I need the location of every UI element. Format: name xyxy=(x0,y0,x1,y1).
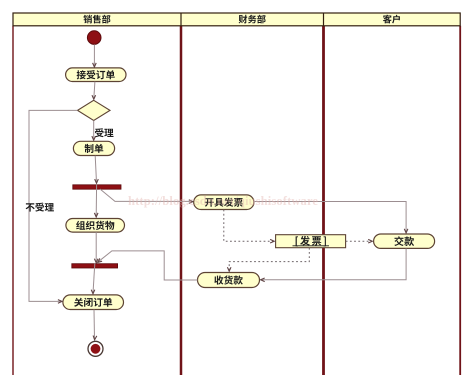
decision diamond xyxy=(78,100,111,120)
wire decision -> close order (reject branch) xyxy=(29,110,78,301)
wire pay -> receive payment xyxy=(261,249,406,280)
wire fork -> issue invoice xyxy=(100,189,192,201)
wire join -> close order xyxy=(93,264,95,294)
dashed wire invoice object -> pay xyxy=(346,240,372,242)
label: accepted xyxy=(95,128,114,137)
label: not accepted xyxy=(26,203,54,212)
lane divider 1 (sales|finance) xyxy=(180,26,183,375)
wire initial -> accept order xyxy=(93,44,95,66)
header label: sales dept xyxy=(83,15,110,24)
activity: accept order xyxy=(66,68,126,82)
initial node xyxy=(87,31,101,45)
wire decision -> make order xyxy=(93,121,95,140)
wire close order -> final xyxy=(93,310,96,340)
wire accept order -> decision xyxy=(94,82,95,99)
activity: organize goods xyxy=(66,219,125,233)
fork bar xyxy=(73,185,121,189)
dashed wire issue invoice -> invoice object xyxy=(224,210,274,242)
activity: make order xyxy=(73,141,114,155)
lane border right (customer lane) xyxy=(459,26,461,375)
dashed wire invoice object -> receive payment xyxy=(229,248,309,271)
join bar xyxy=(72,264,118,268)
wire receive payment -> join xyxy=(98,251,197,280)
activity: receive payment xyxy=(198,273,260,288)
activity: issue invoice xyxy=(194,195,254,210)
object node: invoice xyxy=(276,235,346,248)
lane border left (sales lane) xyxy=(12,26,14,375)
activity: pay xyxy=(374,234,435,248)
header label: customer xyxy=(383,15,400,24)
header label: finance dept xyxy=(239,15,266,24)
final node xyxy=(88,341,103,356)
wire issue invoice -> pay (solid) xyxy=(254,202,406,233)
swimlane header band xyxy=(13,13,460,26)
wire fork -> organize goods xyxy=(95,185,97,217)
activity: close order xyxy=(63,295,124,310)
svg-text:http://blog.csdn.net/qiushisof: http://blog.csdn.net/qiushisoftware xyxy=(128,194,318,208)
wire make order -> fork xyxy=(95,156,96,183)
lane divider 2 (finance|customer) xyxy=(322,26,325,375)
wire organize goods -> join xyxy=(95,232,97,262)
